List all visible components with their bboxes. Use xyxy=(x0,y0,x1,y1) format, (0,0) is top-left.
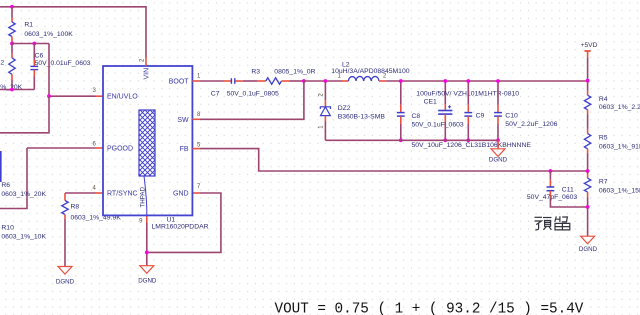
svg-text:C10: C10 xyxy=(505,113,518,120)
svg-text:0603_1%_100K: 0603_1%_100K xyxy=(24,31,73,38)
wire C7-R3 xyxy=(243,80,258,82)
wire FB net xyxy=(192,149,587,171)
wire R1 top xyxy=(11,7,13,22)
op-amp U1 LMR16020PDDAR body xyxy=(103,66,192,215)
wire output rail xyxy=(386,80,587,82)
svg-text:R3: R3 xyxy=(251,68,260,75)
diode DZ2 B360B-13-SMB xyxy=(319,81,386,140)
svg-text:0603_1%_10K: 0603_1%_10K xyxy=(1,234,46,241)
node C10 bottom xyxy=(496,138,500,142)
node C6 top junction xyxy=(32,42,36,46)
capacitor C10 xyxy=(494,81,558,140)
thermal pad THPAD xyxy=(139,110,155,215)
ground DGND R7 xyxy=(579,236,598,253)
svg-text:C6: C6 xyxy=(35,52,44,59)
pin BOOT label xyxy=(169,73,201,85)
node C9 bottom xyxy=(466,138,470,142)
ground DGND cap bank xyxy=(489,140,508,163)
resistor R1 xyxy=(9,22,73,44)
ground DGND R8 xyxy=(56,267,75,286)
pin SW label xyxy=(177,112,201,124)
svg-text:C11: C11 xyxy=(562,187,574,194)
wire RT/SYNC to R8 xyxy=(65,192,103,194)
svg-text:50V_0.1uF_0805: 50V_0.1uF_0805 xyxy=(227,90,279,97)
pin RT/SYNC label xyxy=(92,185,137,197)
capacitor bank value label xyxy=(412,142,532,149)
capacitor C8 xyxy=(397,81,464,140)
svg-text:10uH/3A/APD08845M100: 10uH/3A/APD08845M100 xyxy=(331,68,409,75)
svg-text:0603_1%_20K: 0603_1%_20K xyxy=(1,191,46,198)
svg-text:CE1: CE1 xyxy=(424,99,437,106)
svg-text:PGOOD: PGOOD xyxy=(107,146,133,153)
svg-text:FB: FB xyxy=(180,146,189,153)
svg-text:C8: C8 xyxy=(412,113,421,120)
svg-text:R7: R7 xyxy=(599,179,608,186)
svg-text:R5: R5 xyxy=(599,134,608,141)
node R7 bottom junction xyxy=(586,205,590,209)
node DZ2 junction xyxy=(324,79,328,83)
capacitor C7 xyxy=(211,78,279,97)
svg-text:0603_1%_15K: 0603_1%_15K xyxy=(599,187,640,194)
wire EN/UVLO net xyxy=(0,44,103,133)
wire R5 to FB node xyxy=(587,154,589,172)
wire cap bank bottom rail xyxy=(325,139,498,142)
wire R4-R5 xyxy=(587,114,589,128)
svg-text:GND: GND xyxy=(173,191,189,198)
node C8 top xyxy=(399,79,403,83)
svg-text:DZ2: DZ2 xyxy=(338,105,351,112)
svg-text:C7: C7 xyxy=(211,90,220,97)
pin FB label xyxy=(180,143,201,154)
wire THPAD pin9 down xyxy=(145,215,149,265)
capacitor CE1 xyxy=(416,81,519,140)
svg-text:DGND: DGND xyxy=(489,156,508,163)
svg-text:0805_1%_0R: 0805_1%_0R xyxy=(274,68,315,75)
wire R3 to SW node xyxy=(289,80,304,82)
resistor R8 xyxy=(62,193,121,267)
svg-text:BOOT: BOOT xyxy=(169,79,190,86)
node C8 bottom xyxy=(399,138,403,142)
node FB junction C11 xyxy=(549,169,553,173)
text reserved (yu liu) xyxy=(535,216,570,230)
svg-text:R8: R8 xyxy=(71,204,80,211)
pin EN/UVLO label xyxy=(92,88,138,101)
node +5VD rail junction xyxy=(586,79,590,83)
wire SW rail to L2 xyxy=(304,80,342,82)
node SW junction xyxy=(302,79,306,83)
wire R7 to ground xyxy=(587,207,589,236)
svg-text:R2: R2 xyxy=(0,60,4,67)
wire GND pin7 return xyxy=(147,193,221,252)
svg-text:DGND: DGND xyxy=(56,278,75,285)
pin GND label xyxy=(173,184,201,197)
resistor R2 xyxy=(0,44,23,92)
svg-text:0603_1%_91K: 0603_1%_91K xyxy=(599,144,640,151)
svg-text:C9: C9 xyxy=(476,113,485,120)
svg-text:0603_1%_2.2K: 0603_1%_2.2K xyxy=(599,104,640,111)
node VIN junction R1 xyxy=(10,5,14,9)
wire SW pin8 xyxy=(192,81,304,119)
capacitor C11 xyxy=(527,171,588,207)
resistor R6 label xyxy=(1,182,46,198)
formula VOUT xyxy=(275,302,584,315)
svg-text:LMR16020PDDAR: LMR16020PDDAR xyxy=(152,224,209,231)
node R1-R2-C6 junction xyxy=(10,42,49,46)
svg-text:RT/SYNC: RT/SYNC xyxy=(107,191,138,198)
svg-text:50V_2.2uF_1206: 50V_2.2uF_1206 xyxy=(505,121,557,128)
resistor R7 xyxy=(584,171,640,207)
svg-text:50V_0.01uF_0603: 50V_0.01uF_0603 xyxy=(35,60,91,67)
svg-text:R4: R4 xyxy=(599,96,608,103)
resistor R5 xyxy=(584,129,640,154)
capacitor C6 xyxy=(30,44,90,90)
svg-text:SW: SW xyxy=(177,117,189,124)
svg-text:DGND: DGND xyxy=(579,246,598,253)
node CE1 top xyxy=(443,79,447,83)
svg-text:R6: R6 xyxy=(1,182,10,189)
svg-text:THPAD: THPAD xyxy=(140,186,147,207)
node C10 top xyxy=(496,79,500,83)
inductor L2 xyxy=(331,61,409,81)
svg-text:50V_10uF_1206_CL31B106KBHNNNE: 50V_10uF_1206_CL31B106KBHNNNE xyxy=(412,142,532,149)
wire PGOOD net xyxy=(0,148,103,209)
wire BOOT pin1 xyxy=(192,80,223,82)
resistor R10 label xyxy=(1,224,46,240)
pin VIN stub xyxy=(139,58,150,80)
U1 refdes xyxy=(152,217,209,231)
svg-text:R10: R10 xyxy=(1,224,14,231)
svg-text:VOUT = 0.75 ( 1 + ( 93.2 /15 ): VOUT = 0.75 ( 1 + ( 93.2 /15 ) =5.4V xyxy=(275,302,584,315)
svg-text:50V_47pF_0603: 50V_47pF_0603 xyxy=(527,194,577,201)
ground DGND U1 xyxy=(138,266,157,285)
pin PGOOD label xyxy=(92,142,133,153)
capacitor C9 xyxy=(464,81,484,140)
resistor R4 xyxy=(584,81,640,115)
svg-text:DGND: DGND xyxy=(138,278,157,285)
svg-text:VIN: VIN xyxy=(144,68,151,80)
svg-text:EN/UVLO: EN/UVLO xyxy=(107,94,138,101)
component edge fragment xyxy=(0,151,2,182)
svg-text:B360B-13-SMB: B360B-13-SMB xyxy=(338,113,386,120)
resistor R3 xyxy=(251,68,315,84)
node FB junction R7 xyxy=(586,169,590,173)
svg-text:50V_0.1uF_0603: 50V_0.1uF_0603 xyxy=(412,121,464,128)
wire VIN top rail xyxy=(0,7,146,58)
node C9 top xyxy=(466,79,470,83)
svg-text:R1: R1 xyxy=(24,22,33,29)
wire R2-C6 bottom to left edge xyxy=(0,88,34,92)
power +5VD xyxy=(581,42,598,81)
svg-text:+5VD: +5VD xyxy=(581,42,598,49)
node CE1 bottom xyxy=(443,138,447,142)
pin 9 label xyxy=(139,218,143,224)
